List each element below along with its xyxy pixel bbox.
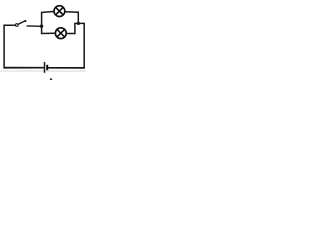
wire xyxy=(48,23,84,68)
wire xyxy=(48,67,85,69)
battery B1 xyxy=(45,62,48,73)
wire xyxy=(27,25,42,27)
node A xyxy=(40,25,43,28)
wire xyxy=(42,12,55,34)
label fragment (cropped text below battery) xyxy=(50,78,52,80)
wire xyxy=(65,12,78,24)
wire xyxy=(4,67,44,69)
lamp L2 xyxy=(55,28,66,39)
wire xyxy=(4,25,44,68)
node B xyxy=(77,22,80,25)
lamp L1 xyxy=(54,6,65,17)
switch S1 xyxy=(15,20,26,26)
